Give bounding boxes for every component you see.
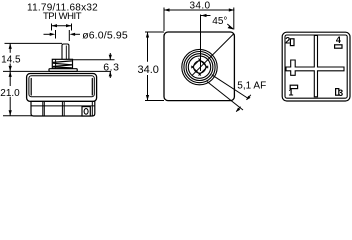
svg-text:2: 2: [285, 35, 290, 45]
svg-text:34.0: 34.0: [137, 64, 158, 76]
svg-text:45°: 45°: [212, 16, 227, 27]
svg-text:21.0: 21.0: [0, 88, 20, 99]
svg-text:4: 4: [336, 35, 341, 45]
svg-text:14.5: 14.5: [1, 54, 21, 65]
svg-text:TPI WHIT: TPI WHIT: [43, 11, 82, 22]
svg-text:ø6.0/5.95: ø6.0/5.95: [82, 30, 128, 42]
svg-text:6.3: 6.3: [103, 61, 119, 73]
svg-text:5,1 AF: 5,1 AF: [237, 80, 266, 91]
